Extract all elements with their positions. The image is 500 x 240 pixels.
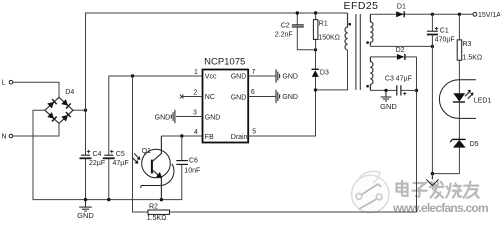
resistor R2 — [147, 204, 170, 223]
wire bridge plus to DC rail — [73, 109, 86, 111]
svg-text:7: 7 — [251, 69, 255, 76]
svg-text:22µF: 22µF — [89, 160, 105, 167]
wire R2 vertical branch — [133, 76, 149, 212]
svg-text:1.5KΩ: 1.5KΩ — [147, 215, 167, 222]
svg-text:NC: NC — [205, 94, 215, 101]
wire R2 to aux line — [170, 57, 417, 212]
svg-text:C1: C1 — [440, 27, 449, 34]
ground symbol pin 7 — [276, 69, 298, 82]
wire C4 bottom to ground rail — [85, 158, 87, 199]
node aux/C3 — [415, 89, 418, 92]
node C6 tap — [180, 134, 183, 137]
capacitor C1 — [427, 14, 455, 43]
resistor R3 — [457, 14, 482, 93]
core — [356, 14, 360, 90]
node D3 / drain / primary — [314, 88, 317, 91]
node R1 top — [314, 11, 317, 14]
svg-text:GND: GND — [282, 94, 298, 101]
N terminal — [2, 134, 13, 141]
transformer T1 EFD25 — [344, 0, 379, 90]
svg-text:R2: R2 — [149, 204, 158, 211]
svg-text:470µF: 470µF — [435, 36, 455, 43]
wire Vcc node / C5 branch — [109, 76, 203, 155]
svg-text:GND: GND — [155, 114, 171, 121]
ground rail node C4 — [84, 198, 87, 201]
auxiliary winding — [370, 57, 373, 91]
svg-text:Drain: Drain — [231, 134, 248, 141]
primary polarity dot — [349, 23, 352, 26]
diode D2 — [396, 47, 405, 60]
wire C1 bottom to return node — [431, 35, 433, 174]
wire D2 to aux vertical — [405, 56, 417, 58]
pin 3 ground wire — [176, 116, 203, 118]
auxiliary polarity dot — [366, 85, 369, 88]
svg-text:N: N — [2, 134, 7, 141]
optocoupler transistor Q1 — [132, 136, 174, 200]
svg-text:4: 4 — [194, 129, 198, 136]
secondary winding — [370, 14, 373, 46]
svg-text:C5: C5 — [116, 151, 125, 158]
svg-text:D4: D4 — [65, 89, 74, 96]
ground symbol pin 3 — [155, 110, 175, 123]
pin 6 ground wire — [248, 96, 276, 98]
resistor R1 — [313, 13, 339, 50]
ground rail node Q1 emitter — [160, 198, 163, 201]
output terminal 15V/1A — [473, 12, 500, 19]
wire L to bridge top — [13, 82, 59, 97]
zener diode D5 — [432, 139, 478, 173]
wire C2 bottom link — [297, 27, 315, 50]
ground rail node C5 — [107, 198, 110, 201]
bridge rectifier D4 — [45, 89, 74, 124]
svg-text:Q1: Q1 — [142, 148, 151, 155]
L terminal — [2, 80, 13, 87]
bridge diode upper-right — [61, 99, 70, 108]
svg-text:C2: C2 — [281, 23, 290, 30]
pin 7 ground wire — [248, 75, 276, 77]
primary winding — [345, 13, 348, 50]
node output return — [431, 172, 434, 175]
svg-text:D1: D1 — [397, 3, 406, 10]
wire FB pin4 — [161, 135, 202, 137]
wire main DC vertical rail — [86, 13, 348, 155]
node R3 top — [458, 13, 461, 16]
svg-text:GND: GND — [205, 114, 221, 121]
bridge diode lower-left — [47, 112, 56, 121]
svg-text:5: 5 — [252, 128, 256, 135]
node bridge plus — [84, 109, 87, 112]
svg-text:LED1: LED1 — [474, 98, 492, 105]
svg-text:www.elecfans.com: www.elecfans.com — [392, 201, 488, 215]
wire aux bottom to C3 — [370, 89, 396, 91]
LED light arrows — [465, 92, 472, 99]
svg-text:R3: R3 — [463, 41, 472, 48]
node C2 top — [296, 11, 299, 14]
svg-text:NCP1075: NCP1075 — [204, 57, 245, 68]
svg-text:D2: D2 — [396, 47, 405, 54]
watermark chinese text 电子发烧友 — [397, 182, 479, 199]
svg-text:2.2nF: 2.2nF — [275, 32, 293, 39]
LED1 — [453, 90, 492, 140]
wire primary bottom — [316, 50, 348, 90]
wire C5 bottom to ground rail — [108, 158, 110, 199]
optocoupler LED side arc — [439, 80, 476, 119]
node C3 ground tap — [384, 89, 387, 92]
svg-text:10nF: 10nF — [184, 168, 200, 175]
capacitor C5 — [103, 150, 129, 167]
node C2/R1/D3 — [314, 48, 317, 51]
capacitor C2 — [275, 13, 304, 39]
wire secondary top to output — [370, 13, 473, 15]
capacitor C4 — [80, 150, 106, 167]
wire Drain pin 5 — [248, 77, 315, 136]
wire secondary bottom return — [370, 45, 432, 47]
svg-text:GND: GND — [282, 74, 298, 81]
svg-text:EFD25: EFD25 — [344, 0, 379, 12]
capacitor C3 — [385, 76, 417, 96]
wire bridge minus to bottom rail — [33, 110, 182, 199]
svg-text:15V/1A: 15V/1A — [478, 12, 500, 19]
svg-text:GND: GND — [231, 95, 247, 102]
svg-text:FB: FB — [205, 134, 214, 141]
bridge diode upper-left — [47, 99, 56, 108]
bridge diode lower-right — [61, 112, 70, 121]
svg-text:2: 2 — [193, 89, 197, 96]
svg-text:C3 47µF: C3 47µF — [385, 76, 412, 83]
svg-text:6: 6 — [251, 89, 255, 96]
svg-text:R1: R1 — [319, 21, 328, 28]
svg-text:GND: GND — [231, 74, 247, 81]
svg-text:L: L — [2, 80, 6, 87]
node Vcc tap to R2 line — [131, 74, 134, 77]
return arrow symbol — [426, 174, 438, 186]
svg-text:1: 1 — [194, 69, 198, 76]
watermark logo elecfans — [352, 171, 389, 212]
svg-text:150KΩ: 150KΩ — [318, 35, 340, 42]
diode D3 — [312, 50, 329, 77]
svg-text:D3: D3 — [320, 70, 329, 77]
ground symbol pin 6 — [276, 90, 298, 103]
svg-text:Vcc: Vcc — [205, 74, 217, 81]
diode D1 — [396, 3, 406, 17]
svg-text:GND: GND — [380, 102, 397, 111]
svg-text:C6: C6 — [189, 157, 198, 164]
svg-text:3: 3 — [193, 109, 197, 116]
pin 2 NC stub with X — [180, 95, 203, 99]
node C1 top — [431, 13, 434, 16]
ground symbol aux GND — [380, 90, 397, 110]
svg-text:1.5KΩ: 1.5KΩ — [463, 54, 483, 61]
node secondary return — [431, 45, 434, 48]
svg-text:47µF: 47µF — [113, 160, 129, 167]
svg-text:GND: GND — [77, 211, 94, 220]
secondary polarity dot — [366, 41, 369, 44]
svg-text:C4: C4 — [93, 151, 102, 158]
light arrows into Q1 — [132, 154, 139, 163]
capacitor C6 — [176, 136, 200, 175]
svg-text:D5: D5 — [470, 141, 479, 148]
aux winding top wire to D2 — [370, 56, 397, 58]
wire N to bridge bottom — [13, 123, 59, 136]
IC U1 NCP1075 — [203, 57, 249, 143]
ground symbol GND bottom — [77, 200, 94, 221]
